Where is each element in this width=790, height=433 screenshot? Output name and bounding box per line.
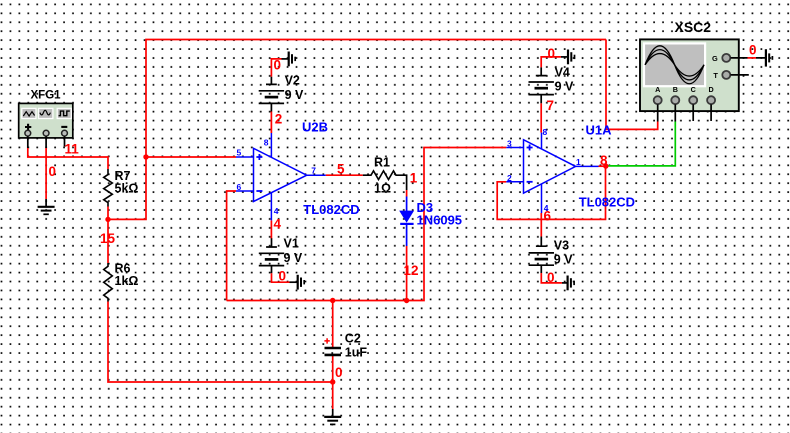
svg-text:8: 8 bbox=[543, 127, 548, 137]
XFG1 common terminal stub wire bbox=[45, 136, 47, 148]
svg-text:TL082CD: TL082CD bbox=[303, 202, 359, 217]
svg-text:0: 0 bbox=[749, 43, 757, 58]
svg-text:B: B bbox=[673, 85, 678, 94]
wire: U2B pin4 to V1 top bbox=[270, 220, 272, 238]
svg-text:12: 12 bbox=[404, 263, 419, 278]
function generator XFG1 bbox=[19, 90, 73, 138]
svg-text:11: 11 bbox=[65, 142, 80, 157]
svg-text:A: A bbox=[655, 85, 660, 94]
wire: U1A output red segment bbox=[599, 165, 608, 167]
junction node15/pin5 bbox=[143, 154, 148, 159]
wire: V4 ground black lead bbox=[561, 56, 568, 58]
wire: U1A pin4 to V3 top bbox=[540, 213, 542, 237]
wire: V4 top to ground 0 bbox=[541, 57, 561, 68]
wire: XFG1 common to ground bbox=[45, 148, 47, 199]
svg-text:0: 0 bbox=[335, 365, 343, 380]
ground right of V2 (sideways) bbox=[289, 52, 296, 67]
svg-text:6: 6 bbox=[237, 182, 242, 192]
svg-text:0: 0 bbox=[547, 270, 555, 285]
wire: top bus from node15 column to scope-A column bbox=[108, 40, 606, 220]
wire: V4 bottom to U1A pin8 bbox=[540, 103, 542, 132]
svg-text:5kΩ: 5kΩ bbox=[115, 182, 139, 196]
junction D3 on feedback bus bbox=[404, 298, 409, 303]
battery V1 bbox=[259, 238, 284, 273]
battery V2 bbox=[259, 77, 284, 112]
svg-text:1: 1 bbox=[410, 171, 418, 186]
svg-text:1uF: 1uF bbox=[345, 345, 368, 359]
wire: C2 top to feedback bus bbox=[332, 301, 334, 348]
wire: scope T stub bbox=[731, 74, 749, 76]
ground right of scope G (sideways) bbox=[766, 49, 773, 66]
wire: scope G red segment bbox=[731, 57, 766, 59]
wire: U2B output to R1 bbox=[326, 174, 363, 176]
svg-text:1kΩ: 1kΩ bbox=[115, 274, 139, 288]
svg-text:2: 2 bbox=[275, 112, 283, 127]
svg-text:D: D bbox=[708, 85, 713, 94]
wire: V1 bottom to ground 0 bbox=[272, 273, 290, 282]
svg-text:C: C bbox=[691, 85, 696, 94]
wire: XFG1 output to R7 top bbox=[28, 148, 108, 169]
svg-text:T: T bbox=[713, 71, 718, 80]
svg-text:1Ω: 1Ω bbox=[374, 181, 391, 195]
wire: scope A black stub bbox=[657, 104, 659, 121]
resistor R6 bbox=[104, 263, 113, 302]
svg-text:9 V: 9 V bbox=[285, 88, 304, 102]
svg-text:0: 0 bbox=[274, 58, 282, 73]
ground right of V4 (sideways) bbox=[568, 50, 575, 65]
svg-text:7: 7 bbox=[311, 165, 316, 175]
wire: node15 junction to R6 top bbox=[107, 219, 109, 263]
oscilloscope XSC2 bbox=[640, 19, 739, 111]
junction U1A output node 8 bbox=[603, 163, 608, 168]
ground right of V3 (sideways) bbox=[568, 276, 575, 291]
svg-text:8: 8 bbox=[600, 153, 608, 168]
svg-text:4: 4 bbox=[274, 206, 279, 216]
wire: U2B pin6 to feedback bus bbox=[227, 191, 236, 301]
wire: V2 bottom to U2B pin8 bbox=[270, 112, 272, 134]
svg-text:V3: V3 bbox=[554, 238, 569, 252]
wire: R1 output corner black bbox=[397, 175, 407, 190]
svg-text:1: 1 bbox=[576, 157, 581, 167]
svg-text:15: 15 bbox=[100, 231, 116, 246]
svg-text:0: 0 bbox=[548, 46, 556, 61]
svg-text:V4: V4 bbox=[555, 65, 570, 79]
resistor R7 bbox=[104, 169, 113, 207]
junction R7/R6 node 15 bbox=[105, 217, 110, 222]
svg-text:8: 8 bbox=[264, 137, 269, 147]
wire: scope A drop bbox=[606, 40, 658, 130]
wire: V1 ground black lead bbox=[290, 281, 298, 283]
wire: V2 ground black lead bbox=[282, 58, 289, 60]
resistor R1 bbox=[363, 171, 397, 180]
wire: node 1 to D3 anode bbox=[406, 190, 408, 197]
svg-text:4: 4 bbox=[544, 203, 549, 213]
wire: scope C black stub bbox=[692, 104, 694, 121]
svg-text:XFG1: XFG1 bbox=[31, 90, 62, 102]
wire: R6 bottom to ground bus bbox=[108, 302, 333, 383]
wire: U1A feedback pin2 loop node 6 bbox=[497, 166, 605, 219]
wire: V3 bottom to ground 0 bbox=[541, 273, 562, 283]
wire: C2 bottom to ground junction bbox=[332, 356, 334, 409]
wire: feedback bus to U1A plus input bbox=[227, 148, 507, 301]
svg-text:9 V: 9 V bbox=[555, 80, 574, 94]
svg-text:9 V: 9 V bbox=[284, 251, 303, 265]
op-amp U2B bbox=[236, 133, 326, 220]
svg-text:G: G bbox=[712, 54, 718, 63]
svg-text:U2B: U2B bbox=[302, 119, 328, 134]
XFG1 minus terminal stub wire bbox=[64, 136, 66, 146]
XFG1 plus terminal stub wire bbox=[27, 136, 29, 148]
wire: scope D black stub bbox=[710, 104, 712, 121]
junction C2 top on feedback bus bbox=[330, 298, 335, 303]
junction C2 bottom ground node bbox=[330, 379, 335, 384]
svg-text:2: 2 bbox=[507, 173, 512, 183]
wire: U2B pin5 input bbox=[146, 156, 236, 158]
svg-text:1N6095: 1N6095 bbox=[417, 212, 463, 227]
svg-text:XSC2: XSC2 bbox=[675, 19, 712, 35]
svg-text:7: 7 bbox=[547, 98, 555, 113]
svg-text:9 V: 9 V bbox=[554, 253, 573, 267]
svg-text:TL082CD: TL082CD bbox=[579, 195, 635, 210]
wire: green output to scope B bbox=[607, 122, 676, 166]
svg-text:V2: V2 bbox=[285, 74, 300, 88]
svg-text:0: 0 bbox=[279, 269, 287, 284]
op-amp U1A bbox=[506, 133, 598, 213]
svg-text:V1: V1 bbox=[284, 236, 299, 250]
svg-text:C2: C2 bbox=[345, 331, 361, 345]
wire: V2 top to ground 0 bbox=[271, 59, 281, 77]
ground below C2 bbox=[324, 409, 341, 424]
diode D3 bbox=[399, 197, 414, 247]
svg-text:4: 4 bbox=[274, 217, 282, 232]
wire: D3 cathode to feedback bus (node 12) bbox=[406, 246, 408, 301]
svg-text:5: 5 bbox=[237, 148, 242, 158]
battery V3 bbox=[529, 237, 554, 274]
svg-text:0: 0 bbox=[49, 164, 57, 179]
ground below XFG1 bbox=[38, 199, 55, 214]
wire: V3 ground black lead bbox=[562, 282, 567, 284]
svg-text:R1: R1 bbox=[374, 155, 390, 169]
svg-text:U1A: U1A bbox=[586, 122, 613, 137]
capacitor C2 bbox=[324, 338, 341, 355]
svg-text:3: 3 bbox=[507, 138, 512, 148]
battery V4 bbox=[529, 67, 554, 103]
wire: scope B black stub bbox=[674, 104, 676, 121]
ground right of V1 (sideways) bbox=[298, 275, 305, 290]
wire: R7 bottom lead to node 15 junction bbox=[107, 207, 109, 220]
svg-text:5: 5 bbox=[337, 162, 345, 177]
